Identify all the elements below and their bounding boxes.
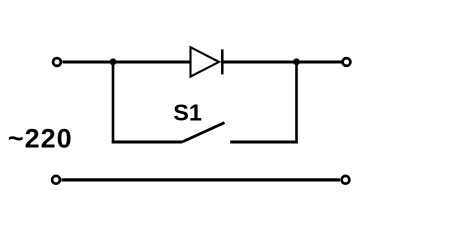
switch S1 blade bbox=[182, 123, 225, 142]
wire branch right vertical bbox=[295, 62, 298, 143]
wire branch bottom left bbox=[112, 141, 182, 144]
diode cathode bar bbox=[221, 49, 224, 74]
wire branch bottom right bbox=[230, 141, 298, 144]
wire top left segment bbox=[63, 61, 191, 64]
terminal right bottom bbox=[342, 176, 350, 184]
svg-text:S1: S1 bbox=[173, 100, 202, 126]
node right junction bbox=[293, 58, 300, 65]
terminal left bottom bbox=[52, 176, 60, 184]
terminal right top bbox=[343, 58, 351, 66]
wire top right segment bbox=[221, 61, 342, 64]
node left junction bbox=[110, 58, 117, 65]
svg-text:~220: ~220 bbox=[8, 124, 73, 154]
diode triangle (anode) bbox=[191, 47, 220, 76]
wire bottom bbox=[62, 178, 341, 181]
wire branch left vertical bbox=[112, 62, 115, 143]
terminal left top bbox=[53, 58, 61, 66]
